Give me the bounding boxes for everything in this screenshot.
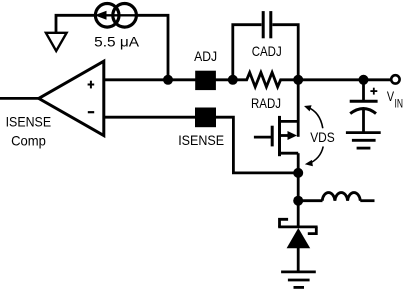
resistor RADJ bbox=[233, 73, 298, 87]
ADJ pin square bbox=[195, 71, 216, 90]
arrow terminal top-left bbox=[46, 33, 67, 51]
svg-text:CADJ: CADJ bbox=[252, 43, 282, 59]
op-amp U1 ISENSE comparator bbox=[39, 61, 104, 135]
ISENSE pin square bbox=[195, 108, 216, 128]
capacitor CADJ bbox=[233, 25, 262, 81]
ground under diode bbox=[281, 270, 316, 273]
wire ISENSE sense path bbox=[214, 117, 298, 173]
ground under CIN bbox=[346, 131, 381, 134]
plus sign polarity bbox=[370, 90, 377, 92]
svg-text:ISENSE: ISENSE bbox=[178, 132, 224, 148]
node right of RADJ bbox=[293, 75, 303, 85]
svg-text:RADJ: RADJ bbox=[251, 95, 281, 111]
node junction at noninverting input bbox=[163, 75, 173, 85]
svg-text:VDS: VDS bbox=[310, 129, 335, 145]
svg-text:Comp: Comp bbox=[11, 132, 46, 148]
wire current source right bbox=[136, 15, 168, 80]
terminal VIN bbox=[391, 75, 399, 83]
wire current source left bbox=[56, 15, 96, 33]
node switch inductor bbox=[293, 196, 303, 206]
wire FET drain down bbox=[297, 153, 300, 175]
svg-text:V: V bbox=[387, 88, 395, 104]
wire node to FET source bbox=[297, 80, 300, 137]
wire ADJ to node bbox=[215, 78, 235, 81]
wire noninverting input bbox=[104, 78, 196, 81]
inductor L1 bbox=[298, 199, 322, 202]
svg-text:IN: IN bbox=[395, 97, 404, 111]
svg-text:ADJ: ADJ bbox=[194, 48, 217, 64]
svg-text:5.5 μA: 5.5 μA bbox=[94, 34, 140, 50]
node switch top bbox=[293, 168, 303, 178]
wire to VIN bbox=[298, 78, 391, 81]
capacitor CIN polarized bbox=[362, 80, 365, 101]
node input cap bbox=[359, 75, 369, 85]
transistor Q1 PFET bbox=[254, 136, 272, 139]
wire node to diode bbox=[297, 201, 300, 228]
wire output of comparator bbox=[0, 97, 39, 100]
current source I1 5.5uA bbox=[95, 4, 119, 28]
node left of RADJ bbox=[228, 75, 238, 85]
diode D1 schottky bbox=[278, 225, 317, 228]
svg-text:ISENSE: ISENSE bbox=[6, 113, 52, 129]
wire between nodes bbox=[297, 173, 300, 201]
wire inverting input bbox=[104, 116, 196, 119]
